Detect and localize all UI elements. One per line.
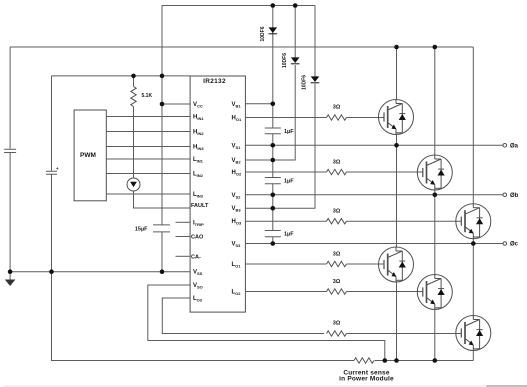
diode D3 (311, 76, 320, 82)
svg-text:VS1: VS1 (232, 143, 242, 150)
resistor R6 (LO3 gate) (327, 331, 347, 336)
wire R5 to Q5 gate (347, 291, 423, 293)
wire R2 to Q2 gate (347, 171, 423, 173)
resistor R4 (327, 261, 347, 266)
svg-text:VS3: VS3 (232, 242, 242, 249)
wire LO3 path (162, 298, 324, 334)
svg-text:LIN1: LIN1 (193, 157, 204, 164)
wire x51 down to bottom rail (52, 272, 355, 361)
svg-text:10DF6: 10DF6 (302, 75, 308, 90)
wire VCC pin stub (162, 103, 190, 105)
capacitor C6 1uF bootstrap C (265, 231, 281, 237)
wire R6 to Q6 gate (347, 333, 462, 335)
svg-text:VS2: VS2 (232, 193, 242, 200)
svg-text:VB3: VB3 (232, 206, 242, 213)
wire VSO return path (148, 285, 385, 361)
svg-text:1µF: 1µF (284, 179, 294, 185)
svg-text:HIN1: HIN1 (193, 115, 204, 122)
resistor R3 (327, 219, 347, 224)
svg-text:HO1: HO1 (232, 116, 242, 123)
wire phase B line VS2 (245, 194, 503, 196)
LED D4 (fault indicator) (127, 178, 140, 191)
wire HO1 to R1 (245, 117, 326, 119)
svg-text:HO2: HO2 (232, 170, 242, 177)
capacitor C5 1uF bootstrap B (265, 178, 281, 184)
terminal phase A (503, 144, 507, 148)
svg-text:CA-: CA- (191, 254, 201, 260)
svg-text:3Ω: 3Ω (333, 160, 341, 166)
wire bus B (434, 47, 436, 155)
svg-text:15µF: 15µF (135, 227, 148, 233)
svg-text:10DF6: 10DF6 (282, 53, 288, 68)
wire R1 to Q1 gate (347, 117, 385, 119)
svg-text:VB2: VB2 (232, 158, 242, 165)
svg-text:Øb: Øb (510, 193, 519, 199)
diode D1 (269, 27, 278, 33)
wire C1 bottom to VSS (9, 153, 11, 272)
wire LED to FAULT pin (134, 191, 191, 208)
wire CA- stub (176, 255, 191, 257)
svg-text:3Ω: 3Ω (333, 209, 341, 215)
svg-text:CAO: CAO (191, 235, 204, 241)
terminal phase C (503, 242, 507, 246)
svg-text:10DF6: 10DF6 (260, 26, 266, 41)
svg-text:LO1: LO1 (232, 262, 242, 269)
op-amp U1 IR2132 box (190, 76, 245, 312)
svg-text:3Ω: 3Ω (333, 105, 341, 111)
wire HO2 to R2 (245, 171, 326, 173)
wire CAO stub (176, 236, 191, 238)
terminal phase B (503, 193, 507, 197)
transistor Q6 (456, 316, 491, 351)
svg-text:LO3: LO3 (193, 296, 203, 303)
svg-text:1µF: 1µF (284, 129, 294, 135)
transistor Q1 (379, 100, 414, 135)
wire ITRIP stub (176, 221, 191, 223)
wire HIN1 (106, 116, 190, 118)
svg-text:3Ω: 3Ω (333, 321, 341, 327)
resistor R2 (327, 169, 347, 174)
svg-text:HO3: HO3 (232, 219, 242, 226)
capacitor C1 (DC bus) (4, 149, 16, 152)
wire HV DC bus rail (10, 46, 473, 48)
wire left HV column (9, 47, 11, 149)
svg-text:VCC: VCC (193, 102, 203, 109)
transistor Q5 (417, 275, 452, 310)
svg-text:LO2: LO2 (232, 290, 242, 297)
wire VSS rail (10, 271, 190, 273)
svg-text:VSO: VSO (193, 283, 203, 290)
diode D1 feed (272, 6, 274, 104)
resistor R5 (327, 289, 347, 294)
svg-text:VB1: VB1 (232, 102, 242, 109)
wire R3 to Q3 gate (347, 220, 462, 222)
wire bottom rail with current sense (375, 360, 474, 362)
wire phase A line VS1 (245, 144, 503, 146)
svg-text:IR2132: IR2132 (203, 78, 226, 85)
svg-text:LIN3: LIN3 (193, 192, 204, 199)
wire HIN2 (106, 131, 190, 133)
junction dots (271, 3, 276, 8)
wire R4 to Q4 gate (347, 263, 385, 265)
svg-text:HIN2: HIN2 (193, 130, 204, 137)
wire VCC bypass column x51 (51, 76, 53, 171)
svg-text:in Power Module: in Power Module (339, 376, 394, 383)
capacitor C3 15uF (153, 225, 170, 232)
wire bus A (396, 47, 398, 100)
wire VCC horizontal y75 (52, 75, 191, 77)
resistor R1 (327, 115, 347, 120)
svg-text:3Ω: 3Ω (333, 279, 341, 285)
diode D3 feed (314, 6, 316, 77)
svg-text:LIN2: LIN2 (193, 172, 204, 179)
diode D2 (291, 57, 300, 63)
svg-text:HIN3: HIN3 (193, 145, 204, 152)
wire LO2 to R5 (245, 291, 326, 293)
ground (9, 272, 11, 280)
wire LIN3 (106, 193, 190, 195)
svg-text:1µF: 1µF (284, 232, 294, 238)
diode D2 feed (294, 6, 296, 58)
capacitor C4 1uF bootstrap A (265, 128, 281, 134)
capacitor C2 (VCC bypass) (46, 171, 57, 174)
svg-text:Øc: Øc (510, 242, 519, 248)
svg-text:Øa: Øa (510, 144, 519, 150)
wire HIN3 (106, 146, 190, 148)
transistor Q4 (379, 247, 414, 282)
svg-text:+: + (56, 166, 59, 171)
svg-text:3Ω: 3Ω (333, 252, 341, 258)
resistor R5.1K (133, 76, 135, 87)
wire VB3 (245, 84, 315, 209)
scan artifact bottom edge (4, 385, 487, 387)
wire LIN1 (106, 158, 190, 160)
wire LIN2 (106, 173, 190, 175)
wire top VCC rail (162, 5, 315, 7)
svg-text:5.1K: 5.1K (142, 93, 153, 99)
transistor Q3 (456, 204, 491, 239)
PWM block (74, 110, 106, 201)
resistor R7 current sense (354, 358, 374, 363)
wire LO1 to R4 (245, 263, 326, 265)
wire VB2 (245, 65, 295, 160)
wire HO3 to R3 (245, 220, 326, 222)
svg-text:VSS: VSS (193, 270, 203, 277)
wire phase C line VS3 (245, 243, 503, 245)
wire VCC rail x161 (161, 76, 163, 225)
wire VCC rail drop to logic (161, 6, 163, 76)
svg-text:ITRIP: ITRIP (193, 220, 204, 227)
svg-text:FAULT: FAULT (191, 203, 209, 209)
wire bus C (472, 47, 474, 204)
svg-text:PWM: PWM (80, 152, 96, 159)
transistor Q2 (417, 155, 452, 190)
wire VB1 (245, 103, 272, 105)
